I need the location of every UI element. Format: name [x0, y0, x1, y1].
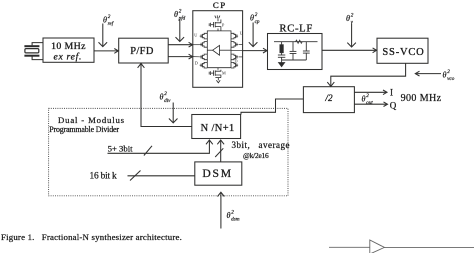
svg-text:M: M	[222, 71, 226, 76]
svg-text:vco: vco	[447, 76, 455, 82]
svg-text:ex ref.: ex ref.	[54, 51, 83, 62]
svg-text:ref: ref	[108, 20, 115, 27]
svg-text:2: 2	[108, 14, 111, 20]
svg-text:900 MHz: 900 MHz	[401, 93, 442, 104]
svg-text:/2: /2	[324, 93, 333, 103]
svg-text:RC-LF: RC-LF	[279, 23, 313, 34]
svg-text:θ: θ	[103, 16, 107, 25]
svg-text:@k/2e16: @k/2e16	[243, 151, 269, 160]
svg-text:D: D	[195, 61, 198, 66]
svg-text:2: 2	[255, 12, 258, 18]
svg-text:θ: θ	[443, 71, 447, 80]
svg-text:5+ 3bit: 5+ 3bit	[108, 144, 134, 154]
svg-text:CP: CP	[213, 0, 227, 10]
svg-text:SS-VCO: SS-VCO	[382, 47, 424, 58]
svg-text:DSM: DSM	[202, 167, 233, 180]
svg-text:2: 2	[366, 93, 369, 99]
svg-text:I: I	[390, 87, 393, 97]
svg-text:2: 2	[164, 91, 167, 97]
svg-text:v: v	[351, 20, 354, 26]
svg-text:3bit, average: 3bit, average	[232, 140, 290, 150]
svg-text:θ: θ	[250, 14, 254, 23]
svg-text:U: U	[240, 31, 243, 36]
svg-text:P/FD: P/FD	[130, 46, 154, 57]
svg-text:2: 2	[351, 13, 354, 19]
svg-text:out: out	[366, 100, 373, 106]
svg-text:P: P	[222, 23, 225, 28]
svg-text:cp: cp	[255, 19, 260, 25]
svg-text:2: 2	[179, 9, 182, 15]
svg-text:Dual - Modulus: Dual - Modulus	[58, 115, 125, 125]
svg-text:D: D	[235, 59, 238, 64]
svg-text:θ: θ	[160, 93, 164, 102]
svg-text:div: div	[164, 98, 171, 104]
svg-text:2: 2	[447, 69, 450, 75]
svg-text:U: U	[194, 33, 197, 38]
svg-text:16 bit k: 16 bit k	[90, 172, 118, 182]
svg-text:Figure 1. Fractional-N synth: Figure 1. Fractional-N synthesizer archi…	[1, 232, 182, 242]
svg-text:Programmable Divider: Programmable Divider	[49, 125, 119, 134]
svg-text:θ: θ	[227, 211, 231, 220]
svg-text:2: 2	[231, 210, 234, 216]
svg-text:N /N+1: N /N+1	[201, 123, 235, 134]
svg-text:pfd: pfd	[178, 15, 186, 22]
svg-text:θ: θ	[174, 10, 178, 19]
svg-text:Q: Q	[390, 101, 397, 111]
svg-text:dsm: dsm	[231, 217, 240, 223]
svg-text:θ: θ	[346, 14, 350, 23]
svg-text:θ: θ	[362, 95, 366, 104]
